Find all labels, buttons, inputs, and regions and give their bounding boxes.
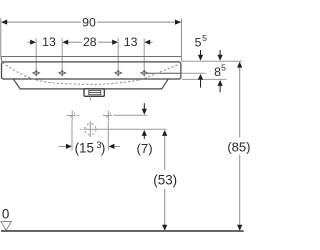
siphon cover box [84,89,104,96]
washbasin body outline [2,62,181,79]
wire: drain centerline left dash [80,128,82,130]
wire: 15.3 dim tails [59,145,67,147]
node: arrow (7) bottom [143,136,145,139]
node: arrow left of 90 [1,20,7,25]
wire: dimension 90 line [1,21,181,23]
drain cross vertical [89,121,91,137]
wire: line from cross L2 to (7) top [113,114,147,116]
tap hole cross 2 [59,70,66,76]
node: arrow (85) bottom [237,225,242,231]
drain symbol dashed circle [85,124,96,135]
tap hole cross 3 [115,70,122,76]
wire: ext line B 5.5 [182,72,206,74]
siphon inner line [89,90,101,94]
node: arrow 15.3 right [109,144,115,149]
tap hole cross 4 [141,70,148,76]
svg-text:28: 28 [83,35,97,49]
wire: ext line A right of rim top [182,60,242,62]
node: arrow 13-right outside [144,40,150,45]
node: arrow 28 left [62,40,68,45]
svg-text:(53): (53) [153,172,177,187]
svg-text:): ) [101,141,105,156]
wire: siphon centerline [89,96,91,100]
washbasin bowl underside bulge [14,79,169,89]
svg-text:5: 5 [195,35,202,49]
svg-text:(7): (7) [137,141,153,156]
wire: ext line C 8.5 [182,78,227,80]
washbasin left bevel [1,57,2,62]
node: arrow 5.5 down [200,50,202,55]
wire: (53) dim line lower [164,189,166,225]
node: arrow 28 right [112,40,118,45]
svg-text:90: 90 [82,16,96,30]
svg-text:5: 5 [221,63,226,73]
node: arrow 5.5 up [200,80,202,88]
wire: extension line right of 90 [180,18,182,61]
wire: (85) dim line lower [239,155,241,225]
fixing cross L1 [67,111,79,121]
svg-text:13: 13 [124,35,138,49]
node: arrow (53) top [162,130,167,136]
svg-text:(85): (85) [227,139,250,154]
floor line [1,230,244,232]
node: arrow 8.5 up [219,86,221,93]
washbasin bowl hidden dashed curve [3,63,180,85]
wire: ext line below cross L2 [107,121,109,151]
washbasin back top edge [1,56,182,58]
wire: ext line below cross L1 [71,121,73,151]
node: arrow (85) top [237,62,242,68]
wire: (53) dim line upper [164,136,166,170]
washbasin rim step line right [148,72,181,74]
node: arrow 8.5 down [219,50,221,55]
svg-text:13: 13 [42,35,56,49]
node: arrow right of 90 [175,20,181,25]
node: arrow 13-left outside [30,40,36,45]
node: arrow (7) top [143,103,145,109]
tap hole cross 1 [33,70,40,76]
node: arrow (53) bottom [162,225,167,231]
wire: extension line left of 90 [0,18,2,56]
wire: drain centerline to (53) [83,128,166,130]
datum triangle [1,222,11,231]
svg-text:5: 5 [202,33,207,43]
wire: extension lines tap holes [36,38,144,69]
wire: (85) dim line upper [239,67,241,137]
svg-text:(15: (15 [75,141,94,156]
svg-text:0: 0 [2,207,9,222]
fixing cross L2 [103,110,112,120]
node: arrow 15.3 left [66,144,72,149]
wire: dim row 13/28/13 [28,41,153,43]
